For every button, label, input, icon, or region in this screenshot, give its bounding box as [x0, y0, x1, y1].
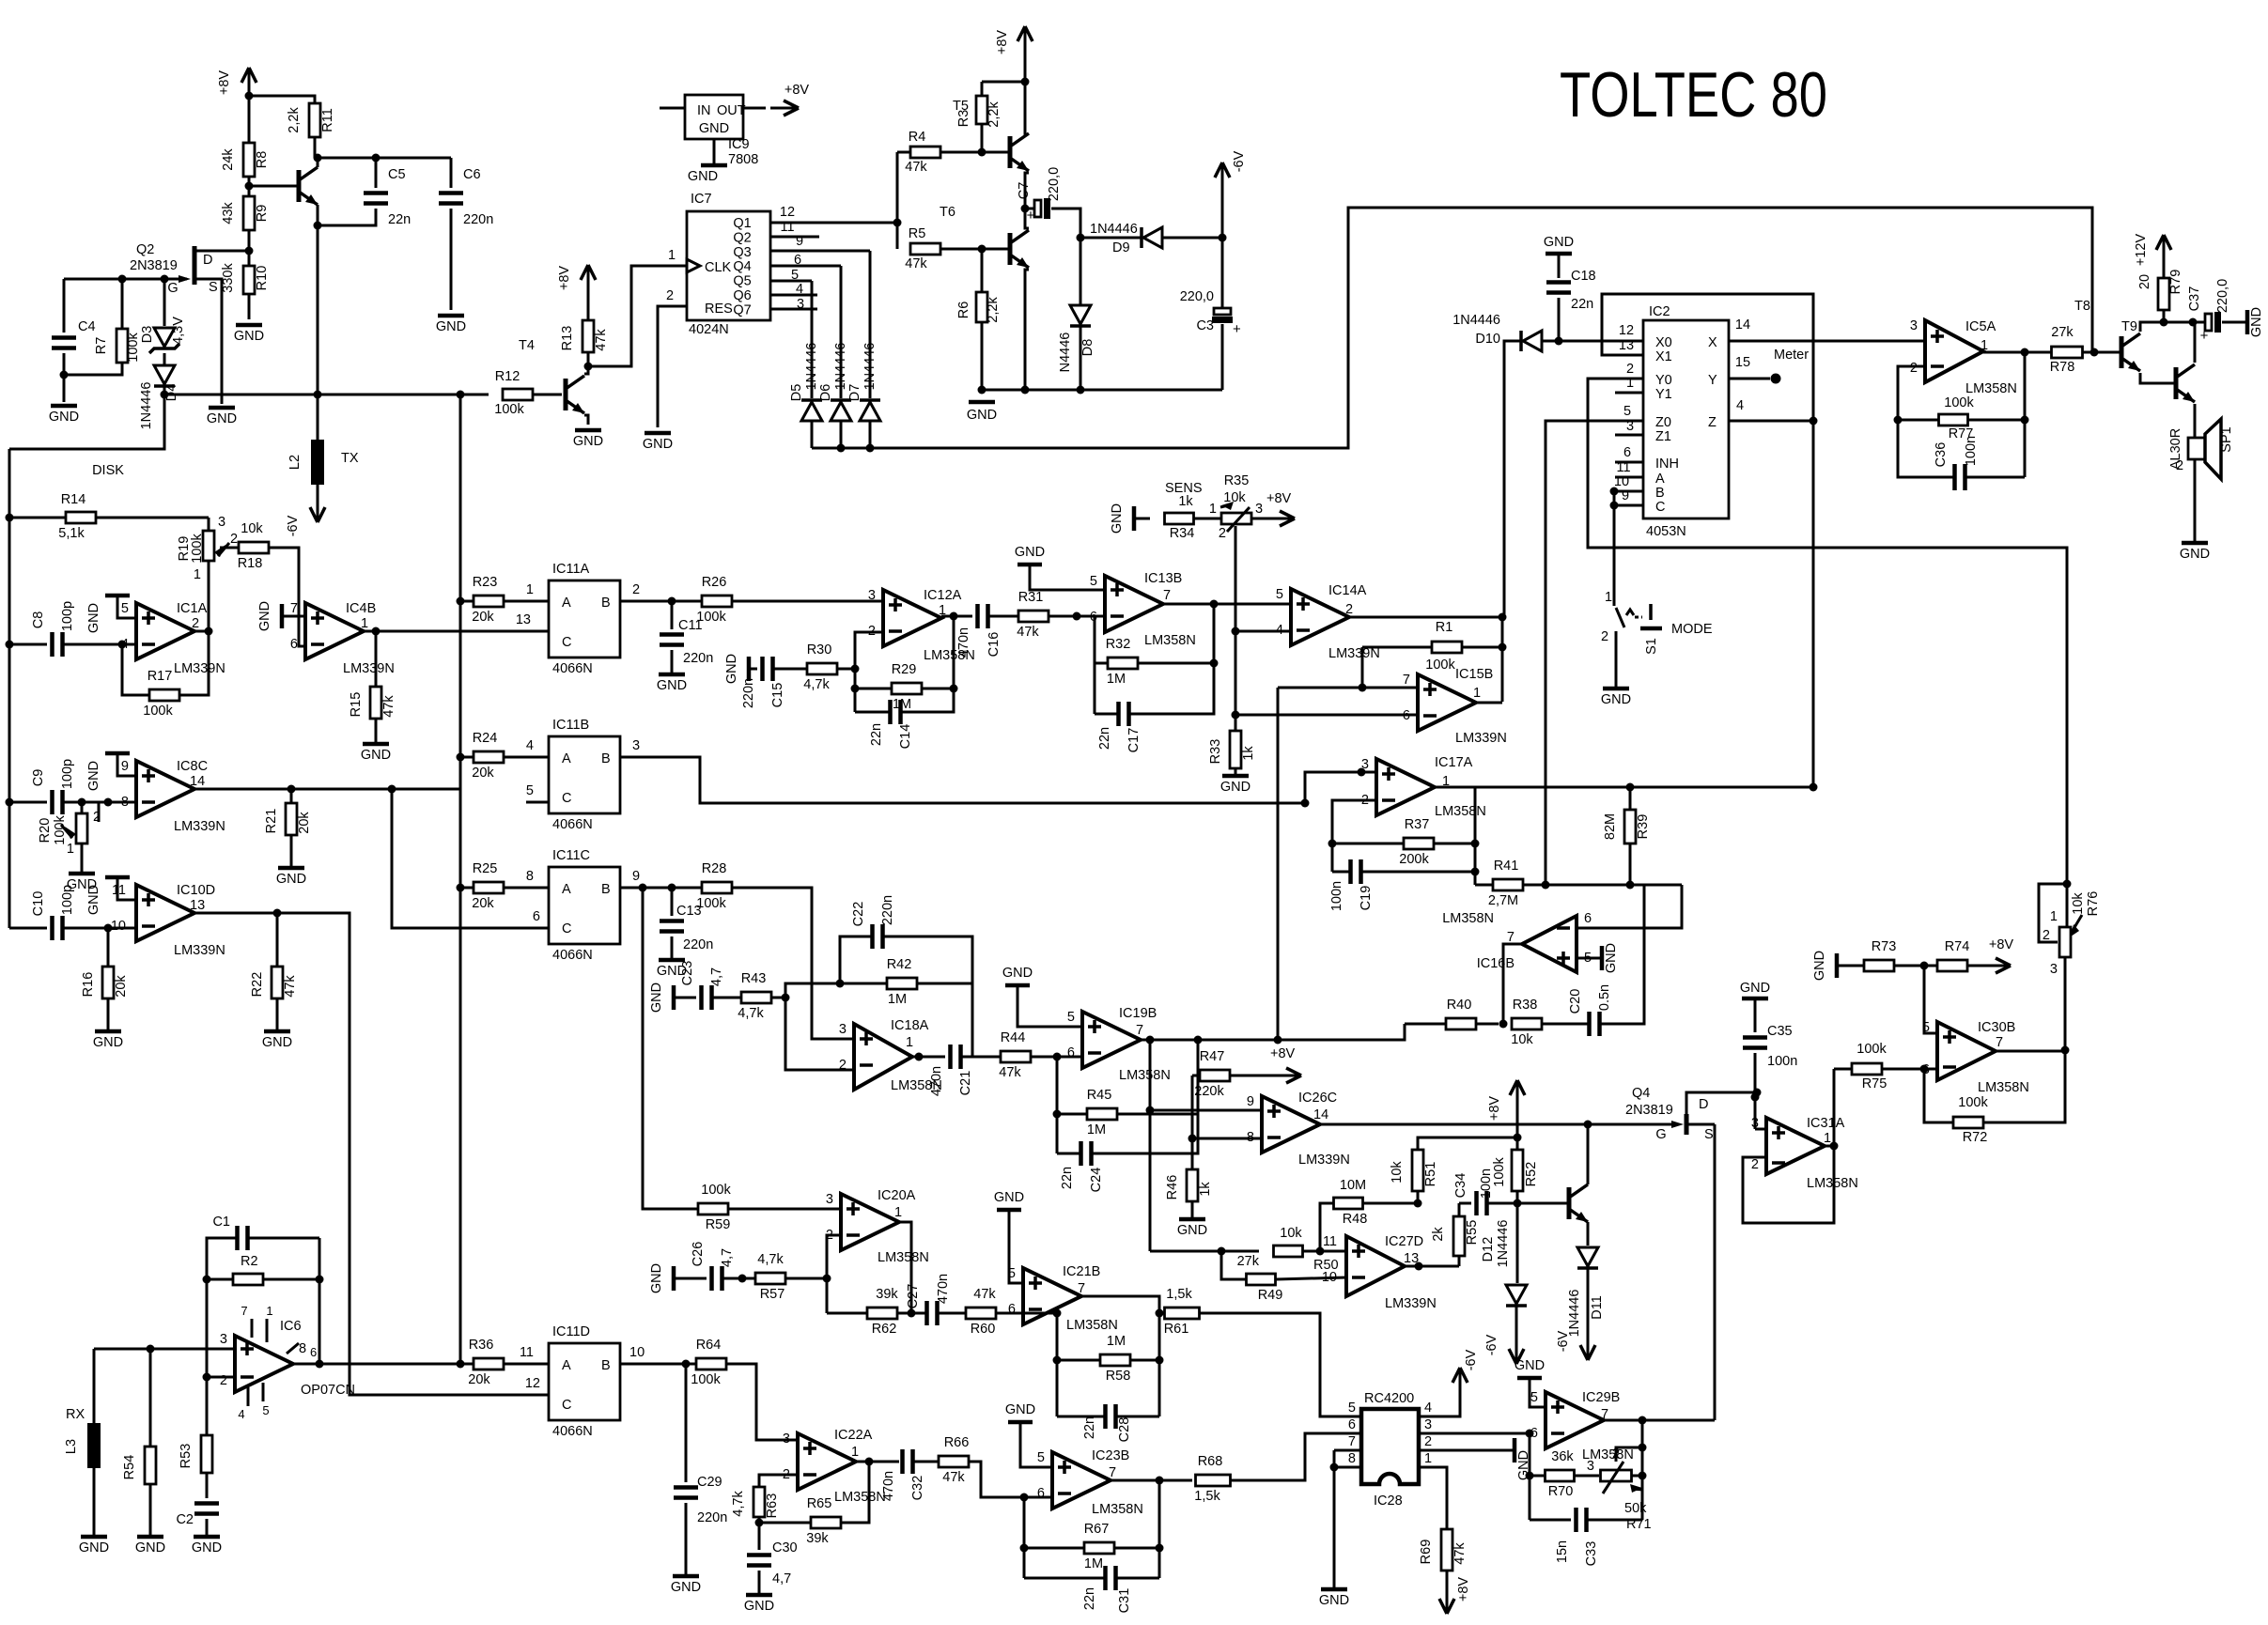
resistor R28 100k: [702, 882, 732, 893]
op-amp IC17A: [1376, 759, 1435, 815]
svg-text:R21: R21: [264, 809, 279, 834]
capacitor C29 220n: [685, 1364, 688, 1482]
svg-text:GND: GND: [1110, 503, 1125, 534]
wire into IN: [660, 107, 685, 110]
svg-text:C23: C23: [680, 961, 695, 986]
resistor R70 36k feedback: [1529, 1433, 1531, 1520]
svg-text:IC20A: IC20A: [878, 1188, 916, 1203]
IC22A output node: [856, 1461, 899, 1463]
left bus to IC26C and R50: [1149, 1040, 1152, 1251]
svg-text:2N3819: 2N3819: [1625, 1103, 1673, 1118]
svg-text:2: 2: [1424, 1434, 1432, 1449]
capacitor C1 feedback: [207, 1238, 237, 1279]
svg-text:47k: 47k: [999, 1065, 1021, 1080]
IC31A output wire: [1825, 1145, 1834, 1148]
svg-text:1: 1: [67, 842, 74, 857]
svg-text:IC30B: IC30B: [1978, 1020, 2015, 1035]
svg-text:4066N: 4066N: [552, 661, 593, 676]
capacitor C15 220n: [760, 657, 765, 681]
svg-text:OP07CN: OP07CN: [301, 1383, 355, 1398]
svg-text:INH: INH: [1655, 457, 1679, 472]
svg-text:R31: R31: [1018, 590, 1044, 605]
svg-text:R68: R68: [1198, 1454, 1223, 1469]
ground above C18: [1546, 252, 1572, 256]
svg-text:4,7k: 4,7k: [731, 1491, 746, 1517]
svg-text:+12V: +12V: [2134, 234, 2149, 267]
IC10D output wire: [194, 913, 549, 1395]
capacitor C16 470n: [975, 604, 980, 628]
svg-text:R4: R4: [909, 130, 926, 145]
svg-text:RX: RX: [66, 1407, 85, 1422]
capacitor C23 4,7: [699, 985, 704, 1010]
capacitor C18 22n: [1546, 280, 1571, 285]
ground and C35: [1742, 997, 1768, 1001]
svg-text:7: 7: [241, 1304, 247, 1318]
ground under C30: [746, 1593, 772, 1598]
svg-text:LM358N: LM358N: [1442, 911, 1494, 926]
svg-text:LM339N: LM339N: [174, 819, 225, 834]
svg-text:1: 1: [668, 248, 676, 263]
svg-text:9: 9: [632, 869, 640, 884]
svg-text:Y0: Y0: [1655, 373, 1672, 388]
svg-text:LM339N: LM339N: [1455, 731, 1507, 746]
svg-text:R35: R35: [1224, 473, 1250, 488]
resistor R10: [243, 266, 255, 294]
svg-text:IC27D: IC27D: [1385, 1234, 1423, 1249]
svg-text:1N4446: 1N4446: [1452, 313, 1500, 328]
resistor R37 200k feedback: [1332, 800, 1376, 872]
svg-text:C22: C22: [851, 902, 866, 927]
svg-text:IC16B: IC16B: [1477, 956, 1515, 971]
svg-text:C31: C31: [1117, 1588, 1132, 1614]
svg-text:GND: GND: [699, 121, 729, 136]
svg-text:R67: R67: [1084, 1522, 1110, 1537]
IC15B - input wire: [1235, 714, 1418, 717]
IC13B output wire: [1163, 603, 1291, 606]
svg-text:L2: L2: [287, 455, 303, 470]
svg-text:1: 1: [1473, 686, 1481, 701]
ground under C6: [438, 314, 464, 318]
svg-text:2: 2: [2043, 928, 2050, 943]
svg-text:220n: 220n: [463, 212, 493, 227]
svg-text:D5: D5: [789, 384, 804, 402]
svg-text:11: 11: [1616, 460, 1630, 475]
resistor R51 10k: [1417, 1191, 1420, 1203]
svg-text:1N4446: 1N4446: [804, 343, 819, 391]
svg-text:R8: R8: [255, 151, 270, 169]
resistor R22 47k: [276, 913, 279, 966]
wire IC6 minus node: [206, 1279, 209, 1437]
svg-text:R33: R33: [1208, 739, 1223, 765]
resistor R68 1,5k: [1196, 1475, 1231, 1486]
svg-text:GND: GND: [257, 601, 272, 631]
svg-text:100k: 100k: [1944, 395, 1974, 410]
ground under R16: [95, 1029, 121, 1034]
ground under R15: [363, 742, 389, 747]
resistor R69 47k: [1441, 1529, 1452, 1571]
IC26C + input wire: [1150, 1109, 1262, 1112]
svg-text:10: 10: [111, 919, 126, 934]
svg-text:4,7: 4,7: [720, 1248, 735, 1267]
svg-text:X0: X0: [1655, 335, 1672, 350]
svg-text:+8V: +8V: [557, 266, 572, 291]
svg-text:R47: R47: [1200, 1049, 1225, 1064]
op-amp IC31A: [1755, 1128, 1766, 1131]
Q2 gate arrow: [64, 278, 187, 281]
svg-text:R42: R42: [887, 957, 912, 972]
op-amp IC10D: [136, 885, 194, 941]
capacitor C5: [375, 158, 378, 188]
IC7 4024N box: [687, 211, 770, 320]
svg-text:39k: 39k: [806, 1531, 829, 1546]
ground under R54: [137, 1535, 163, 1540]
svg-text:Meter: Meter: [1774, 348, 1809, 363]
svg-text:R26: R26: [702, 575, 727, 590]
svg-text:D8: D8: [1080, 339, 1095, 357]
IC6 output wire to R36: [293, 1363, 460, 1366]
op-amp IC30B: [1924, 966, 1937, 1033]
svg-text:1k: 1k: [1241, 746, 1256, 761]
svg-text:R18: R18: [238, 556, 263, 571]
svg-text:IC11D: IC11D: [552, 1324, 590, 1339]
resistor R11: [309, 103, 320, 137]
svg-text:100k: 100k: [494, 402, 524, 417]
capacitor C36 100n: [1898, 420, 1955, 477]
svg-text:GND: GND: [1812, 951, 1827, 981]
svg-text:R57: R57: [760, 1287, 785, 1302]
power +8V arrow top left: [248, 68, 251, 96]
svg-text:LM358N: LM358N: [1807, 1176, 1858, 1191]
svg-text:100k: 100k: [1492, 1157, 1507, 1187]
ground T6 emitter row: [982, 389, 1222, 392]
wire R41 to IC16B minus: [1578, 885, 1682, 928]
ground under C29: [673, 1574, 699, 1579]
IC21B output: [1081, 1296, 1159, 1416]
svg-text:R20: R20: [38, 818, 53, 843]
resistor R4: [897, 151, 910, 154]
svg-text:47k: 47k: [1017, 625, 1039, 640]
svg-text:100k: 100k: [143, 704, 173, 719]
svg-text:C: C: [562, 921, 571, 936]
svg-text:IC11C: IC11C: [552, 848, 590, 863]
svg-text:220n: 220n: [683, 651, 713, 666]
svg-text:7: 7: [290, 601, 298, 616]
svg-text:C4: C4: [78, 319, 96, 334]
ground under R22: [264, 1029, 290, 1034]
resistor R72 100k feedback: [1924, 1069, 1954, 1122]
svg-text:R1: R1: [1436, 620, 1453, 635]
svg-text:R34: R34: [1170, 526, 1195, 541]
svg-text:470n: 470n: [881, 1471, 896, 1501]
capacitor C3 220,0 polarized: [1221, 238, 1224, 310]
svg-text:IC5A: IC5A: [1965, 319, 1996, 334]
svg-text:1: 1: [851, 1445, 859, 1460]
svg-text:C14: C14: [898, 724, 913, 750]
svg-text:IC28: IC28: [1374, 1493, 1403, 1509]
resistor R8: [243, 143, 255, 177]
svg-text:3: 3: [632, 738, 640, 753]
capacitor C8 100p: [6, 641, 14, 649]
svg-text:2: 2: [1601, 629, 1608, 644]
svg-text:+: +: [1027, 208, 1035, 224]
svg-text:GND: GND: [2180, 547, 2210, 562]
svg-text:20k: 20k: [468, 1372, 490, 1387]
op-amp IC5A: [1925, 320, 1983, 382]
svg-text:Q4: Q4: [733, 259, 751, 274]
svg-text:3: 3: [220, 1332, 227, 1347]
svg-text:47k: 47k: [905, 256, 927, 271]
svg-text:Y: Y: [1708, 373, 1717, 388]
svg-text:20k: 20k: [472, 610, 494, 625]
capacitor C11 220n: [671, 601, 674, 629]
svg-text:7: 7: [1163, 588, 1171, 603]
svg-text:C: C: [562, 635, 571, 650]
svg-text:LM339N: LM339N: [174, 661, 225, 676]
svg-text:2: 2: [1751, 1157, 1759, 1172]
svg-text:IC18A: IC18A: [891, 1018, 929, 1033]
resistor R61 1,5k: [1159, 1312, 1164, 1315]
svg-text:3: 3: [1255, 502, 1263, 517]
svg-text:27k: 27k: [1237, 1254, 1260, 1269]
svg-text:-6V: -6V: [1556, 1330, 1571, 1352]
svg-text:B: B: [601, 751, 611, 766]
svg-text:22n: 22n: [1060, 1167, 1075, 1189]
ground under C11: [659, 673, 685, 677]
svg-text:C35: C35: [1767, 1024, 1793, 1039]
svg-text:-6V: -6V: [1232, 150, 1247, 172]
svg-text:100p: 100p: [60, 759, 75, 789]
svg-text:IC4B: IC4B: [346, 601, 376, 616]
svg-text:20k: 20k: [297, 812, 312, 834]
svg-text:R44: R44: [1001, 1030, 1026, 1045]
svg-text:22n: 22n: [1082, 1587, 1097, 1610]
svg-text:5: 5: [1623, 404, 1631, 419]
IC1A output and pot node: [194, 630, 209, 633]
svg-text:100k: 100k: [1958, 1095, 1988, 1110]
svg-text:3: 3: [1587, 1459, 1594, 1474]
ground under R20: [69, 872, 95, 876]
svg-text:9: 9: [1247, 1094, 1254, 1109]
svg-text:R61: R61: [1164, 1322, 1189, 1337]
svg-text:GND: GND: [1544, 235, 1574, 250]
resistor R9: [243, 196, 255, 230]
svg-text:R59: R59: [706, 1217, 731, 1232]
svg-text:4,7: 4,7: [709, 967, 724, 986]
svg-text:C8: C8: [31, 611, 46, 629]
svg-text:R65: R65: [807, 1496, 832, 1511]
svg-text:1N4446: 1N4446: [1090, 222, 1138, 237]
IC29B output wire to Q4 source: [1604, 1419, 1715, 1422]
resistor R44 47k: [1001, 1051, 1031, 1062]
svg-text:8: 8: [1348, 1451, 1356, 1466]
svg-text:100k: 100k: [701, 1183, 731, 1198]
svg-text:C21: C21: [958, 1071, 973, 1096]
svg-text:Q4: Q4: [1632, 1086, 1650, 1101]
svg-text:R45: R45: [1087, 1088, 1112, 1103]
svg-text:100p: 100p: [60, 601, 75, 631]
svg-text:6: 6: [1623, 445, 1631, 460]
svg-text:C10: C10: [31, 891, 46, 917]
svg-text:39k: 39k: [876, 1287, 898, 1302]
svg-text:R12: R12: [495, 369, 520, 384]
svg-text:IC9: IC9: [728, 137, 750, 152]
svg-text:R75: R75: [1862, 1076, 1887, 1091]
op-amp IC8C: [136, 761, 194, 817]
resistor R77 100k: [1939, 414, 1968, 426]
svg-text:C9: C9: [31, 769, 46, 787]
svg-text:3: 3: [1751, 1116, 1759, 1131]
svg-text:R29: R29: [892, 662, 917, 677]
svg-text:IC12A: IC12A: [924, 588, 962, 603]
svg-text:5: 5: [262, 1403, 269, 1417]
svg-text:36k: 36k: [1551, 1449, 1574, 1464]
svg-text:3: 3: [826, 1192, 833, 1207]
svg-text:GND: GND: [657, 678, 687, 693]
svg-text:10: 10: [629, 1345, 645, 1360]
svg-text:3: 3: [839, 1022, 847, 1037]
svg-text:1M: 1M: [1087, 1122, 1106, 1137]
IC11D 4066N box: [549, 1343, 620, 1420]
svg-text:10k: 10k: [1280, 1226, 1302, 1241]
svg-text:1k: 1k: [1198, 1182, 1213, 1197]
svg-text:1: 1: [2050, 909, 2058, 924]
diode D6: [840, 266, 843, 398]
IC14A - input wire: [1235, 630, 1291, 633]
svg-text:22n: 22n: [1571, 297, 1593, 312]
svg-text:GND: GND: [1220, 780, 1251, 795]
-6V arrow above C3: [1221, 193, 1224, 238]
Q4 gate arrow from IC26C: [1671, 1121, 1684, 1128]
resistor R26 100k: [672, 600, 703, 603]
svg-text:GND: GND: [49, 410, 79, 425]
speaker SP1 AL30R: [2188, 438, 2205, 459]
svg-text:Q7: Q7: [733, 302, 751, 317]
svg-text:A: A: [562, 1358, 571, 1373]
resistor R45 1M feedback: [1056, 1057, 1059, 1153]
svg-text:GND: GND: [135, 1540, 165, 1555]
resistor R14 5,1k: [6, 514, 14, 522]
svg-text:C5: C5: [388, 167, 406, 182]
svg-text:12: 12: [1619, 323, 1634, 338]
svg-text:D3: D3: [140, 326, 155, 344]
svg-text:R39: R39: [1636, 814, 1651, 840]
IC7 RES pin 2 wire to GND: [658, 306, 687, 427]
svg-text:GND: GND: [1015, 545, 1045, 560]
svg-text:R76: R76: [2086, 891, 2101, 917]
svg-text:A: A: [562, 751, 571, 766]
resistor R25 20k: [460, 887, 474, 890]
diode bus wire to top rail: [812, 208, 2092, 448]
svg-text:N4446: N4446: [1058, 333, 1073, 373]
svg-text:-6V: -6V: [286, 515, 301, 536]
svg-text:330k: 330k: [221, 263, 236, 293]
svg-text:R30: R30: [807, 642, 832, 658]
svg-text:Z1: Z1: [1655, 429, 1671, 444]
IC8C + input ground stub: [117, 753, 136, 776]
svg-text:4,7k: 4,7k: [738, 1006, 764, 1021]
op-amp IC14A: [1291, 589, 1349, 645]
IC11B 4066N box: [549, 736, 620, 813]
svg-text:R66: R66: [944, 1435, 970, 1450]
svg-text:5: 5: [526, 783, 534, 798]
op-amp IC13B: [1105, 576, 1163, 632]
resistor R15 47k: [375, 631, 378, 686]
capacitor C28 22n feedback: [1057, 1416, 1105, 1418]
svg-text:R55: R55: [1465, 1220, 1480, 1246]
svg-text:R69: R69: [1419, 1540, 1434, 1565]
inductor L2 TX coil: [317, 395, 319, 440]
svg-text:LM358N: LM358N: [1066, 1318, 1118, 1333]
svg-text:4,3V: 4,3V: [171, 317, 186, 345]
svg-text:4066N: 4066N: [552, 817, 593, 832]
svg-text:R37: R37: [1405, 817, 1430, 832]
svg-text:100n: 100n: [1479, 1168, 1494, 1199]
svg-text:22n: 22n: [1082, 1416, 1097, 1439]
capacitor C14 22n feedback: [855, 711, 890, 714]
svg-text:R52: R52: [1524, 1162, 1539, 1187]
svg-text:G: G: [167, 281, 178, 296]
svg-text:IC6: IC6: [280, 1319, 302, 1334]
svg-text:7: 7: [1996, 1035, 2003, 1050]
svg-text:R5: R5: [909, 226, 926, 241]
IC1A + input ground stub: [117, 596, 136, 618]
svg-text:4053N: 4053N: [1646, 524, 1686, 539]
svg-text:IC8C: IC8C: [177, 759, 208, 774]
svg-text:+8V: +8V: [1270, 1046, 1296, 1061]
svg-text:T4: T4: [519, 338, 535, 353]
svg-text:C33: C33: [1584, 1541, 1599, 1567]
resistor R42 1M: [887, 978, 917, 989]
ground R73 row: [1835, 953, 1840, 978]
+8V arrow above R52: [1516, 1080, 1519, 1108]
wire +8V to R8/R11: [248, 96, 251, 146]
svg-text:C19: C19: [1359, 886, 1374, 911]
svg-text:7: 7: [1403, 673, 1410, 688]
svg-text:IC29B: IC29B: [1582, 1390, 1620, 1405]
svg-text:3: 3: [1626, 419, 1634, 434]
svg-text:GND: GND: [643, 437, 673, 452]
resistor R41 2,7M: [1475, 884, 1494, 887]
resistor R29 1M feedback: [854, 669, 857, 712]
svg-text:1: 1: [361, 616, 368, 631]
IC9 GND pin: [713, 139, 716, 165]
svg-text:X1: X1: [1655, 349, 1672, 364]
svg-text:T8: T8: [2074, 299, 2090, 314]
svg-text:GND: GND: [649, 1263, 664, 1293]
capacitor C2: [194, 1501, 219, 1506]
svg-text:Q5: Q5: [733, 274, 751, 289]
svg-text:R9: R9: [255, 205, 270, 223]
svg-text:Q3: Q3: [733, 245, 751, 260]
svg-text:8: 8: [526, 869, 534, 884]
ground under R21: [278, 866, 304, 871]
IC21B - wire: [1023, 1312, 1057, 1315]
svg-text:C37: C37: [2187, 286, 2202, 312]
resistor R2 feedback: [318, 1238, 321, 1364]
capacitor C7 220,0 polarized: [1025, 208, 1033, 210]
op-amp IC1A: [136, 603, 194, 659]
op-amp IC27D: [1346, 1236, 1405, 1296]
ground under C13: [659, 958, 685, 963]
svg-text:22n: 22n: [869, 723, 884, 746]
capacitor C19 100n: [1332, 871, 1350, 874]
resistor R73: [1864, 960, 1894, 971]
svg-text:5: 5: [1067, 1010, 1075, 1025]
op-amp IC20A: [841, 1194, 899, 1250]
diode D8: [1080, 238, 1082, 304]
IC15B + input wire: [1278, 687, 1418, 689]
capacitor C34 100n: [1459, 1202, 1471, 1205]
